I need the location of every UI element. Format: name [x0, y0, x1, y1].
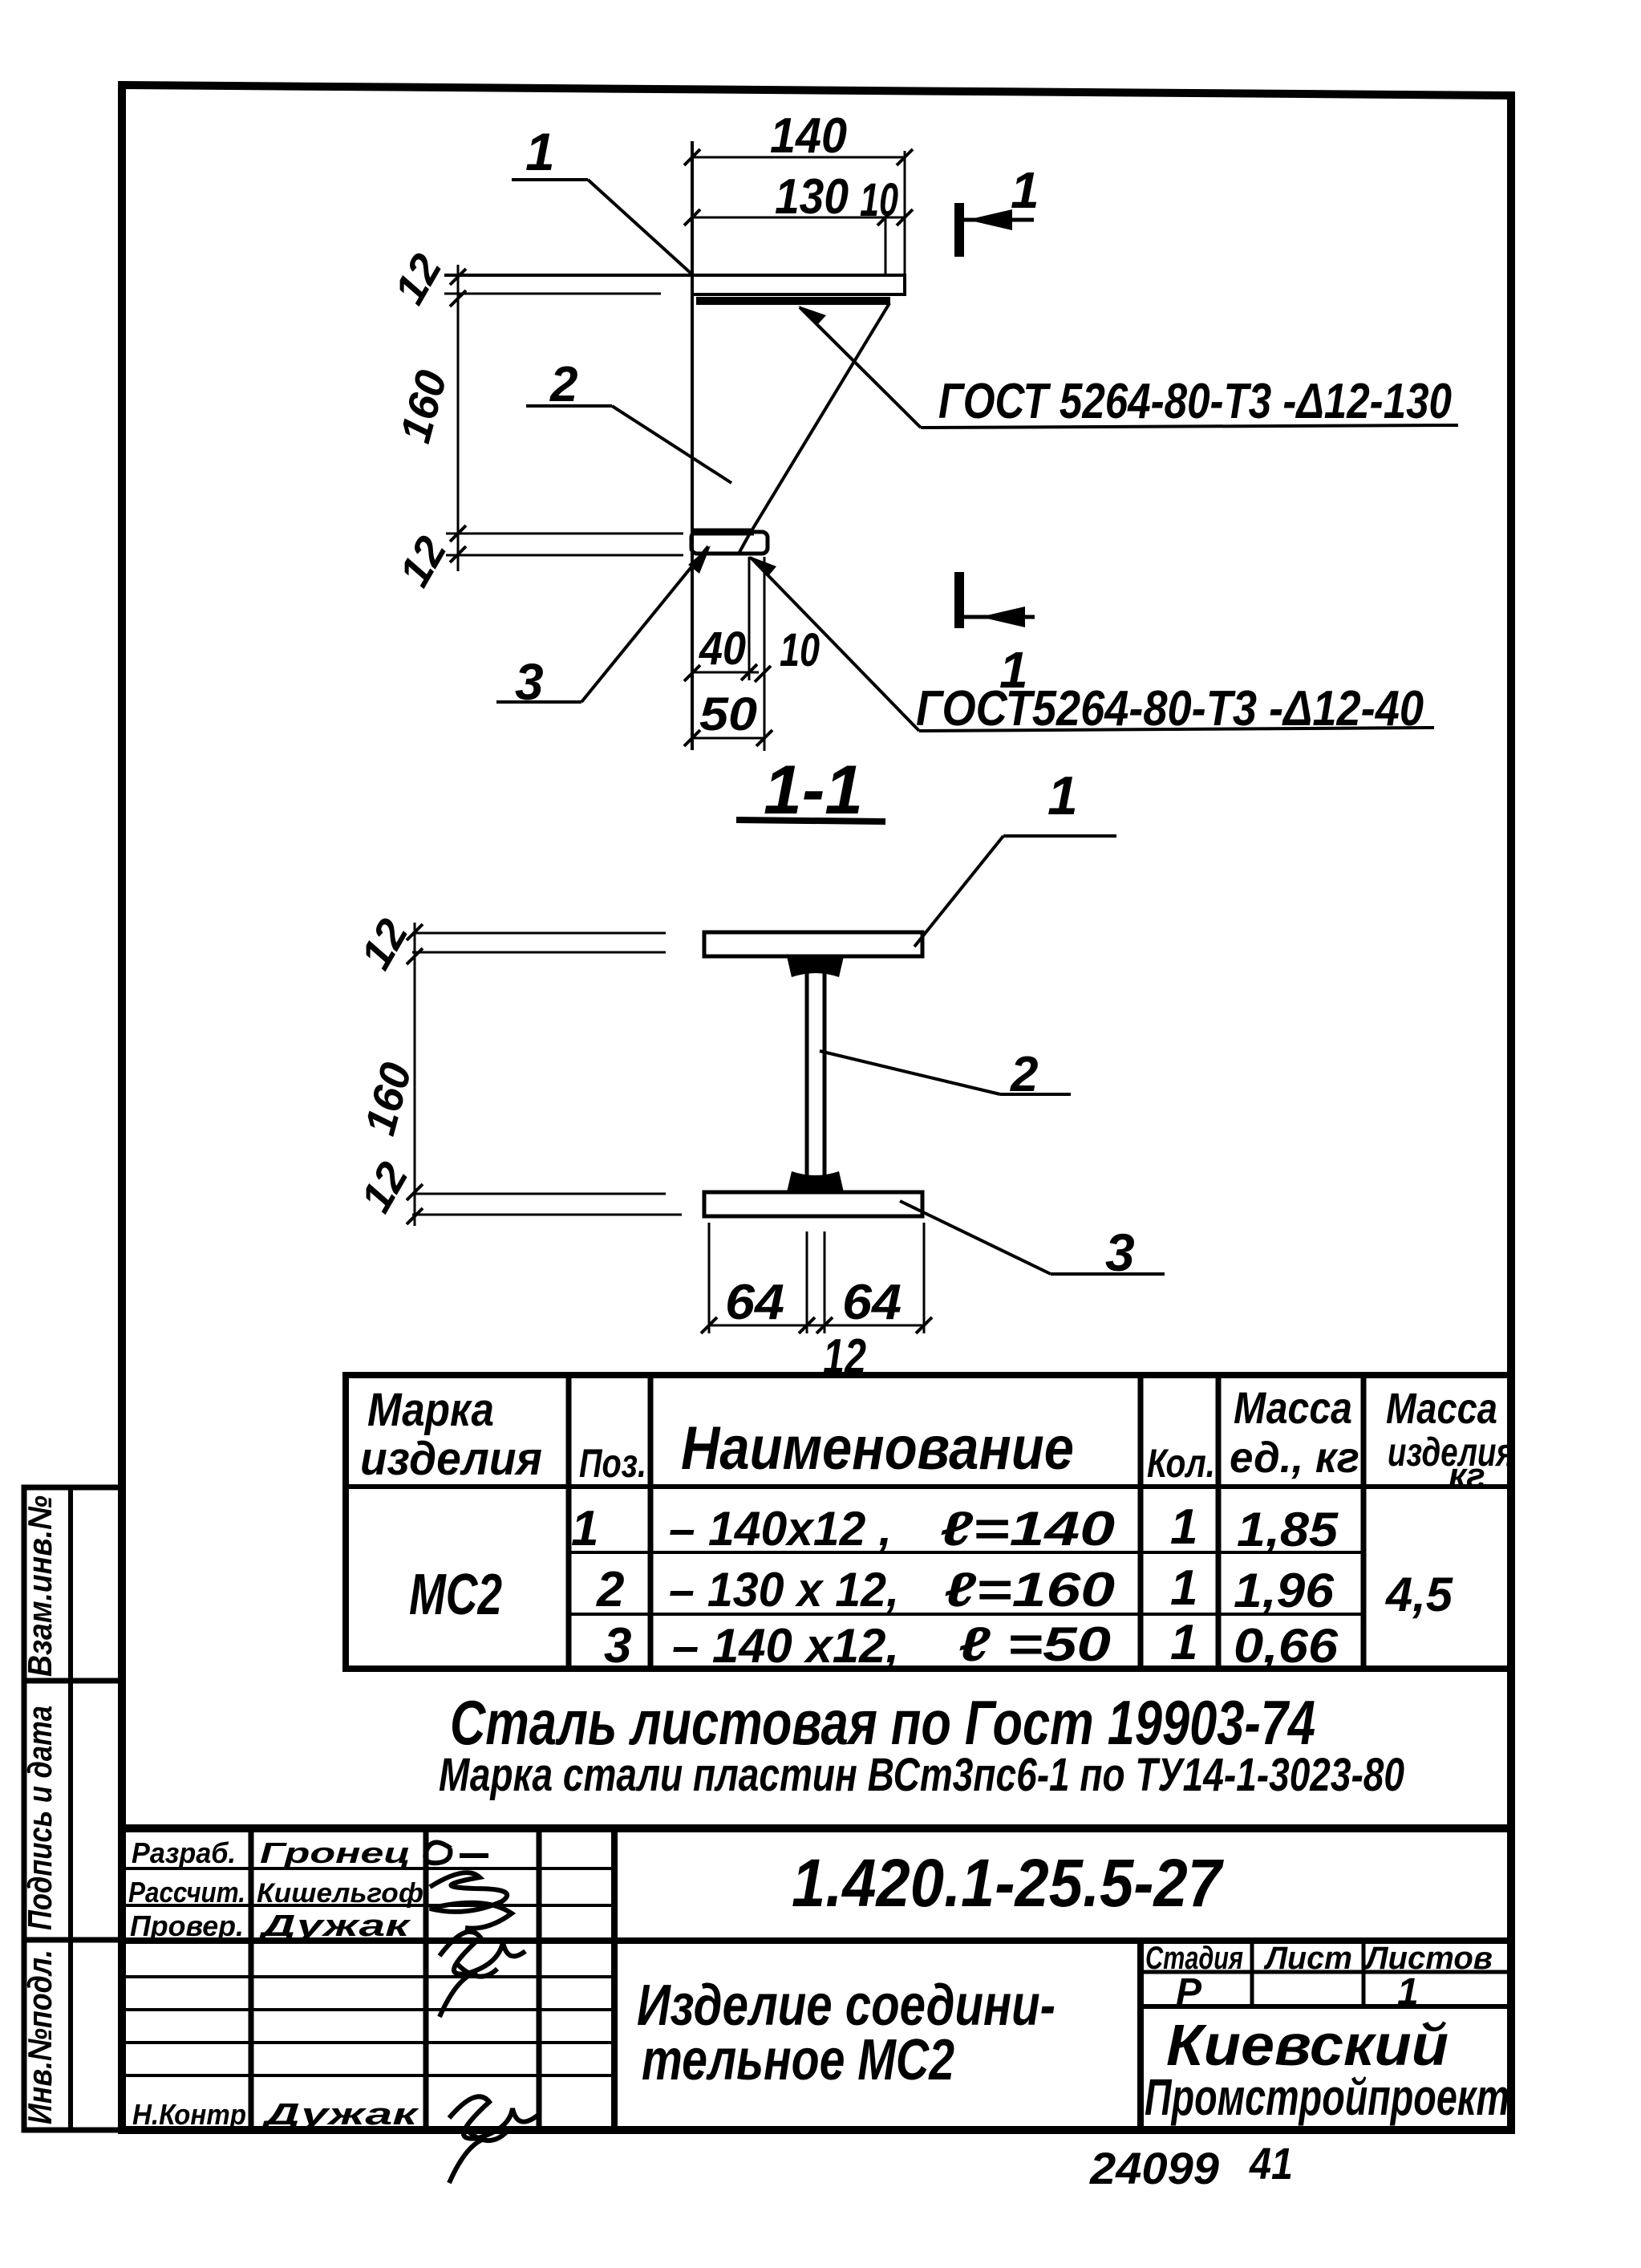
svg-text:ГОСТ 5264-80-Т3 -Δ12-130: ГОСТ 5264-80-Т3 -Δ12-130	[938, 374, 1452, 429]
svg-text:Дужак: Дужак	[257, 1909, 411, 1943]
svg-text:– 140х12 ,: – 140х12 ,	[669, 1502, 892, 1556]
svg-text:140: 140	[770, 108, 847, 164]
svg-text:40: 40	[699, 623, 746, 675]
weld slash across plate 3	[739, 530, 752, 554]
svg-text:64: 64	[725, 1275, 784, 1330]
thick top edge of plate 3	[691, 529, 754, 536]
table header texts	[360, 1382, 1514, 1495]
signature of Гронец	[425, 1842, 488, 1863]
signature of Кишельгоф	[430, 1872, 512, 1928]
section bottom extension lines	[708, 1223, 711, 1333]
weld seam under top flange (T3 weld)	[696, 297, 890, 305]
section left dimension chain 12 / 160 / 12	[351, 911, 423, 1226]
plate 3 (bottom flange, section)	[704, 1192, 922, 1216]
svg-text:Инв.№подл.: Инв.№подл.	[21, 1950, 59, 2124]
svg-text:ℓ=140: ℓ=140	[940, 1502, 1115, 1556]
svg-text:0,66: 0,66	[1234, 1619, 1339, 1673]
svg-text:Гронец: Гронец	[260, 1836, 411, 1869]
svg-text:1,85: 1,85	[1237, 1503, 1339, 1556]
svg-text:Кол.: Кол.	[1147, 1441, 1215, 1486]
svg-text:Н.Контр: Н.Контр	[132, 2098, 246, 2131]
svg-text:2: 2	[549, 357, 577, 412]
border frame of drawing sheet	[122, 85, 1511, 2130]
svg-text:Листов: Листов	[1363, 1941, 1493, 1976]
signature of Дужак (Н.контр.)	[449, 2096, 537, 2183]
section mark 1 (lower)	[959, 572, 1035, 699]
svg-text:ℓ=160: ℓ=160	[944, 1563, 1115, 1617]
dimension 40	[684, 557, 771, 682]
weld fillets at web top	[787, 956, 844, 977]
svg-text:1: 1	[999, 641, 1028, 699]
section left extension lines	[412, 932, 666, 935]
weld callout 1: ГОСТ 5264-80-Т3-Д12-130	[798, 306, 1458, 429]
svg-text:Поз.: Поз.	[579, 1441, 646, 1486]
plate 1 (top flange, section)	[704, 932, 922, 956]
svg-text:1: 1	[525, 122, 555, 181]
dimension 130 / 10	[684, 169, 913, 275]
svg-text:1: 1	[1170, 1615, 1197, 1670]
section mark 1 (upper)	[959, 161, 1039, 257]
dimension 50	[684, 557, 772, 751]
svg-text:1: 1	[571, 1501, 598, 1556]
svg-text:МС2: МС2	[409, 1563, 502, 1627]
svg-text:1: 1	[1011, 161, 1039, 219]
svg-text:Подпись и дата: Подпись и дата	[21, 1706, 59, 1930]
svg-text:10: 10	[860, 174, 898, 226]
svg-text:Промстройпроект: Промстройпроект	[1145, 2068, 1509, 2126]
leader label 3 (bottom plate) with arrow	[496, 546, 711, 711]
svg-text:24099: 24099	[1089, 2143, 1219, 2193]
svg-text:тельное МС2: тельное МС2	[642, 2028, 954, 2092]
leader label 2 (section, web)	[820, 1047, 1071, 1102]
svg-text:Сталь листовая по Гост 19903-: Сталь листовая по Гост 19903-74	[450, 1687, 1315, 1758]
plate 2 (web) left edge / extension line	[691, 141, 694, 750]
svg-text:изделия: изделия	[360, 1433, 542, 1485]
svg-text:Р: Р	[1176, 1971, 1202, 2014]
plate 3 (bottom plate) outline	[691, 532, 768, 554]
plate 2 (web, section)	[805, 956, 809, 1192]
svg-text:Наименование: Наименование	[681, 1414, 1074, 1483]
svg-text:– 130 х 12,: – 130 х 12,	[669, 1563, 899, 1617]
svg-text:Марка стали пластин ВСт3пс6-1: Марка стали пластин ВСт3пс6-1 по ТУ14-1-…	[439, 1749, 1404, 1801]
extension lines for bottom 12 dim	[446, 533, 683, 535]
svg-text:41: 41	[1249, 2138, 1293, 2189]
svg-text:Лист: Лист	[1263, 1941, 1352, 1976]
section title 1-1	[736, 752, 885, 829]
svg-text:Взам.инв.№: Взам.инв.№	[21, 1495, 59, 1677]
svg-text:1: 1	[1170, 1499, 1197, 1555]
plate 1 (top flange) outline	[444, 275, 905, 294]
plate 2 (web) right edge diagonal line	[752, 303, 889, 529]
svg-text:50: 50	[699, 688, 757, 740]
svg-text:1.420.1-25.5-27: 1.420.1-25.5-27	[792, 1845, 1224, 1921]
svg-text:4,5: 4,5	[1385, 1568, 1454, 1621]
svg-text:3: 3	[604, 1618, 631, 1674]
signature scribbles	[425, 1842, 537, 2183]
svg-text:кг: кг	[1449, 1456, 1485, 1495]
svg-text:Рассчит.: Рассчит.	[128, 1876, 245, 1909]
svg-text:Дужак: Дужак	[261, 2098, 419, 2132]
leader label 1 (top plate)	[512, 122, 693, 275]
table body texts	[409, 1499, 1454, 1674]
weld callout 2: ГОСТ 5264-80-Т3-Д12-40	[749, 556, 1434, 736]
leader label 1 (section, top flange)	[914, 765, 1116, 947]
svg-text:1,96: 1,96	[1234, 1564, 1335, 1617]
svg-text:– 140 х12,: – 140 х12,	[672, 1619, 899, 1673]
svg-text:130: 130	[775, 169, 849, 225]
svg-text:Марка: Марка	[367, 1384, 494, 1436]
left dimension chain 12 / 160 / 12	[385, 246, 466, 594]
section bottom dimension 64 / 12 / 64	[701, 1275, 932, 1385]
svg-text:ед., кг: ед., кг	[1230, 1434, 1359, 1482]
leader label 3 (section, bottom flange)	[900, 1201, 1165, 1282]
svg-text:Провер.: Провер.	[130, 1909, 244, 1942]
svg-text:2: 2	[596, 1562, 624, 1617]
svg-text:1: 1	[1047, 765, 1078, 826]
svg-text:Масса: Масса	[1234, 1382, 1352, 1433]
svg-text:ℓ =50: ℓ =50	[958, 1617, 1111, 1671]
svg-text:1: 1	[1397, 1971, 1419, 2014]
svg-text:Кишельгоф: Кишельгоф	[257, 1878, 423, 1909]
weld fillets at web bottom	[787, 1171, 844, 1192]
svg-text:10: 10	[780, 624, 820, 676]
svg-text:1: 1	[1170, 1560, 1197, 1616]
signature of Дужак (Провер.)	[440, 1932, 525, 2017]
dimension 140 (top)	[684, 108, 913, 275]
svg-text:Масса: Масса	[1386, 1385, 1497, 1433]
svg-text:64: 64	[842, 1275, 902, 1330]
svg-text:Разраб.: Разраб.	[132, 1836, 236, 1869]
leader label 2 (web)	[526, 357, 731, 483]
title block texts	[128, 1836, 1509, 2132]
extension line left of flange bottom	[444, 293, 661, 295]
